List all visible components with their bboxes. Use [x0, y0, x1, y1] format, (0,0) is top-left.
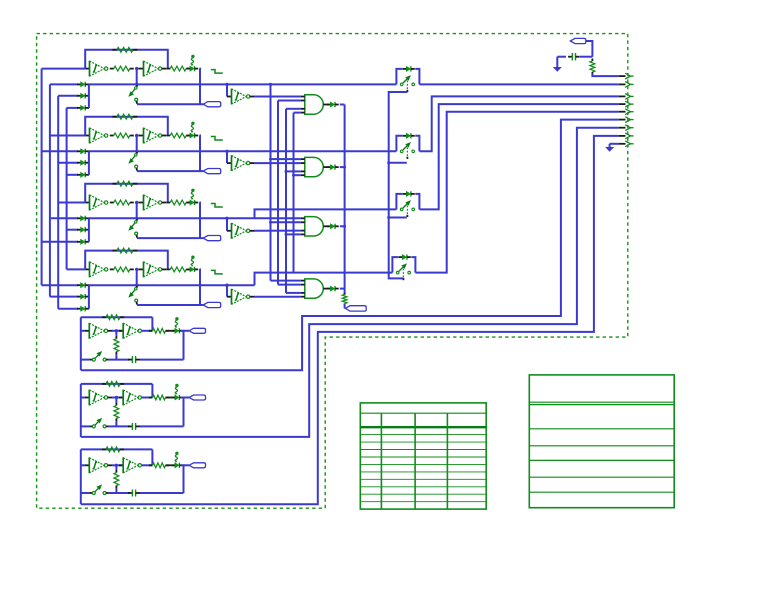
oscB damping resistor — [115, 402, 117, 405]
oscC output resistor — [149, 464, 153, 466]
osc4 bus branch to unit4 — [255, 273, 393, 286]
pin 7 — [625, 125, 630, 131]
oscA bottom wire right — [140, 359, 184, 361]
osc2 bus wire right — [89, 150, 397, 152]
osc4 lamp squiggle — [191, 256, 194, 259]
junction — [225, 150, 228, 153]
osc4 bus wire — [42, 284, 78, 286]
oscB mid wire — [112, 397, 123, 399]
bundle wire v1 — [270, 84, 272, 280]
oscA bottom wire mid — [109, 359, 130, 361]
gate G3 output diode — [327, 225, 330, 227]
osc4 output lamp/diode — [187, 268, 190, 270]
oscB damping bot wire — [115, 421, 117, 426]
osc2 feedback resistor — [112, 116, 117, 118]
gate1 input3 wire — [286, 108, 301, 110]
junction — [225, 217, 228, 220]
osc1 stub wire 2 — [58, 95, 78, 97]
gate G3 output wire — [340, 225, 345, 227]
gate G2 output diode — [327, 166, 330, 168]
oscA feedback resistor — [102, 316, 106, 318]
oscB feedback resistor — [102, 383, 106, 385]
oscB lamp squiggle — [175, 384, 178, 387]
gate4 input3 wire — [286, 292, 301, 294]
gate1 input4 wire — [294, 112, 301, 114]
osc3 output lamp/diode — [187, 202, 190, 204]
osc3 stub diode 2 — [77, 229, 81, 231]
osc1 stub diode 3 — [77, 107, 81, 109]
oscA out wire — [142, 330, 153, 332]
osc1 bus wire right — [89, 83, 397, 85]
buffer3 schmitt buffer — [231, 223, 233, 239]
osc2 stub wire 2 — [58, 162, 78, 164]
oscA schmitt inverter B — [122, 323, 124, 339]
oscC flag stub — [184, 464, 190, 466]
power flag wire — [586, 41, 593, 57]
osc3 bus wire — [50, 217, 78, 219]
osc1 inverter B input lead — [139, 68, 144, 70]
osc2 junction drop wire — [136, 136, 138, 152]
osc4 bottom wire — [137, 304, 203, 306]
power rail wire — [557, 56, 566, 58]
oscC output lamp/diode — [172, 464, 175, 466]
osc2 inverter B input lead — [139, 135, 144, 137]
osc2 feedback wire — [85, 117, 168, 136]
buffer2 input tap wire — [226, 151, 228, 163]
osc4 output lead — [162, 268, 166, 270]
oscB fb right wire — [151, 384, 153, 398]
left bus wire x=66.6 — [66, 108, 68, 270]
unit3 actuator wire — [389, 217, 407, 219]
power arrow stem — [556, 57, 558, 67]
pin9 arrow stem — [609, 144, 611, 147]
pin 9 — [625, 141, 630, 147]
oscC out lead — [166, 464, 175, 466]
oscB output flag — [189, 395, 206, 400]
gate G1 output wire — [340, 104, 345, 106]
pin 4 — [625, 101, 630, 107]
oscB bottom wire right — [140, 425, 184, 427]
oscC output flag — [189, 463, 206, 468]
osc1 stub diode 2 — [77, 95, 81, 97]
osc1 schmitt inverter B — [143, 61, 145, 77]
unit1 switch contacts — [400, 83, 403, 86]
power to pin1 wire — [592, 74, 618, 77]
unit2 switch diode — [403, 135, 407, 137]
osc3 waveform annotation — [211, 204, 223, 208]
pin7 return wire — [81, 128, 619, 437]
osc4 junction drop wire — [136, 269, 138, 285]
power supply arrow — [553, 67, 562, 72]
AND gate G2 — [305, 157, 324, 176]
osc2 right drop wire — [198, 136, 201, 172]
osc1 output lead — [162, 68, 166, 70]
unit2 switch bridge wire — [396, 136, 402, 152]
schematic boundary (dashed) — [37, 34, 628, 509]
AND gate G4 — [305, 279, 323, 298]
power capacitor — [568, 56, 572, 58]
oscB bottom wire mid — [109, 425, 130, 427]
oscB input wire — [81, 397, 85, 399]
osc2 output lamp/diode — [187, 135, 190, 137]
oscC input wire — [81, 464, 85, 466]
osc3 inverter B input lead — [139, 202, 144, 204]
osc4 inverter B input lead — [139, 268, 144, 270]
oscB out right wire — [181, 398, 184, 427]
junction — [343, 225, 346, 228]
oscB capacitor — [128, 425, 132, 427]
osc1 contact switch — [136, 85, 139, 87]
pin6 return wire — [81, 120, 619, 371]
oscA input wire — [81, 330, 85, 332]
junction — [269, 83, 272, 86]
osc2 inverter A input lead — [85, 135, 89, 137]
osc4 stub diode 2 — [77, 296, 81, 298]
gate G4 output diode — [327, 288, 330, 290]
oscB schmitt inverter B — [122, 390, 124, 406]
junction — [135, 217, 138, 220]
osc3 output lead — [162, 202, 166, 204]
oscA output lamp/diode — [172, 330, 175, 332]
osc2 diode tie wire — [88, 151, 90, 175]
oscC damping bot wire — [115, 489, 117, 493]
osc2 stub diode 2 — [77, 162, 81, 164]
AND gate G1 — [305, 95, 323, 114]
osc3 inverter A input lead — [85, 202, 89, 204]
buffer2 output lead — [250, 162, 254, 164]
osc1 schmitt inverter A — [89, 61, 91, 77]
osc3 right drop wire — [198, 203, 201, 239]
pin 4 lead — [619, 103, 626, 105]
pin 2 — [625, 82, 630, 88]
osc1 output flag — [203, 102, 221, 107]
oscA damping bot wire — [115, 355, 117, 360]
oscA capacitor — [128, 359, 132, 361]
oscC feedback resistor — [102, 448, 106, 450]
AND gate G3 — [305, 217, 324, 236]
junction — [135, 284, 138, 287]
buffer4 input tap wire — [226, 285, 228, 297]
left bus wire x=58.2 — [57, 96, 59, 309]
osc3 output flag — [203, 236, 221, 241]
osc4 bus diode — [77, 284, 81, 286]
osc3 junction drop wire — [136, 203, 138, 219]
buffer1 output lead — [250, 96, 254, 98]
oscB mid lead — [108, 397, 112, 399]
oscB top wire — [81, 383, 153, 385]
osc2 schmitt inverter A — [89, 128, 91, 144]
buffer2 input lead — [227, 162, 232, 164]
gate G2 output wire — [340, 166, 345, 168]
left bus wire x=49.9 — [49, 84, 51, 296]
osc4 output flag — [203, 302, 221, 307]
junction — [115, 464, 118, 467]
osc3 bus diode — [77, 217, 81, 219]
osc4 bus wire right — [89, 284, 255, 286]
unit1 switch bridge wire — [396, 69, 402, 85]
osc4 feedback wire — [85, 251, 168, 270]
pin 3 lead — [619, 95, 626, 97]
junction — [269, 221, 272, 224]
buffer2 schmitt buffer — [231, 155, 233, 171]
oscA out lead — [166, 330, 175, 332]
oscC mid lead — [108, 464, 112, 466]
unit2 to pin wire — [419, 96, 618, 151]
actuator chain wire — [389, 92, 408, 278]
unit3 switch contacts — [400, 208, 403, 211]
osc1 input wire — [42, 68, 86, 70]
gate2 input4 wire — [294, 174, 301, 176]
oscB left wire — [80, 384, 82, 437]
junction — [135, 67, 138, 70]
unit3 switch diode — [403, 193, 407, 195]
osc1 output resistor — [166, 68, 170, 70]
pin 1 — [625, 73, 630, 79]
unit4 switch diode — [399, 256, 403, 258]
oscA output flag — [189, 328, 206, 333]
bundle wire v2 — [277, 101, 279, 285]
osc1 feedback wire — [85, 50, 168, 69]
oscB schmitt inverter A — [88, 390, 90, 406]
oscB output resistor — [149, 397, 153, 399]
power arrow (pin9) — [605, 147, 614, 152]
buffer1 schmitt buffer — [231, 89, 233, 105]
osc1 junction drop wire — [136, 69, 138, 85]
oscC bottom wire mid — [109, 492, 130, 494]
power rail wire right — [580, 56, 592, 58]
oscC lamp squiggle — [175, 452, 178, 455]
junction — [387, 161, 390, 164]
osc3 input wire — [58, 202, 85, 204]
oscB bottom wire left — [81, 425, 89, 427]
osc2 schmitt inverter B — [143, 128, 145, 144]
power flag — [570, 38, 586, 43]
osc3 stub wire 2 — [67, 229, 78, 231]
osc1 lamp squiggle — [191, 55, 194, 58]
oscA mid wire — [112, 330, 123, 332]
osc4 schmitt inverter B — [143, 262, 145, 278]
unit1 switch diode — [403, 68, 407, 70]
unit2 actuator wire — [389, 162, 407, 164]
oscA inverter B input lead — [119, 330, 123, 332]
osc1 inverter A input lead — [85, 68, 89, 70]
osc1 bus diode — [77, 83, 81, 85]
pin 5 lead — [619, 111, 626, 113]
oscA damping top wire — [115, 331, 117, 336]
osc3 schmitt inverter A — [89, 195, 91, 211]
oscC schmitt inverter B — [122, 457, 124, 473]
osc4 schmitt inverter A — [89, 262, 91, 278]
osc4 contact switch — [136, 286, 139, 288]
osc2 bus wire — [42, 150, 78, 152]
oscC inverter B input lead — [119, 464, 123, 466]
oscA inverter A input lead — [85, 330, 89, 332]
osc3 schmitt inverter B — [143, 195, 145, 211]
oscB damping top wire — [115, 398, 117, 403]
osc1 bottom wire — [137, 103, 203, 105]
osc3 bus wire right — [89, 217, 301, 219]
OR bus tail wire — [344, 304, 346, 309]
oscA mid lead — [108, 330, 112, 332]
osc1 diode tie wire — [88, 84, 90, 108]
osc2 stub diode 3 — [77, 174, 81, 176]
oscA contact switch — [89, 359, 92, 361]
osc4 stub wire 2 — [50, 296, 78, 298]
oscA schmitt inverter A — [88, 323, 90, 339]
oscB inverter B input lead — [119, 397, 123, 399]
junction — [135, 150, 138, 153]
osc3 diode tie wire — [88, 218, 90, 242]
junction — [292, 174, 295, 177]
oscA output resistor — [149, 330, 153, 332]
oscC fb right wire — [151, 449, 153, 465]
osc2 output lead — [162, 135, 166, 137]
osc4 input wire — [67, 268, 86, 270]
left bus wire x=41.6 — [41, 69, 43, 286]
osc3 feedback wire — [85, 184, 168, 203]
osc1 feedback resistor — [112, 49, 117, 51]
oscA damping resistor — [115, 336, 117, 339]
oscC capacitor — [128, 492, 132, 494]
osc2 bottom wire — [137, 170, 203, 172]
mixer output flag — [345, 306, 366, 311]
osc4 inverter A input lead — [85, 268, 89, 270]
buffer1 output wire — [254, 96, 301, 98]
osc4 right drop wire — [198, 269, 201, 305]
pin8 return wire — [81, 136, 619, 504]
pin 6 — [625, 117, 630, 123]
oscA fb right wire — [151, 317, 153, 331]
osc2 input wire — [50, 135, 85, 137]
osc1 bus wire — [50, 83, 78, 85]
osc1 output lamp/diode — [187, 68, 190, 70]
oscC out right wire — [181, 465, 184, 493]
oscB out lead — [166, 397, 175, 399]
oscC schmitt inverter A — [88, 457, 90, 473]
buffer3 output lead — [250, 230, 254, 232]
junction — [135, 201, 138, 204]
junction — [387, 216, 390, 219]
osc4 feedback resistor — [112, 250, 117, 252]
oscB flag stub — [184, 397, 190, 399]
OR bus resistor — [344, 293, 346, 295]
pin 2 lead — [619, 83, 626, 85]
oscC top wire — [81, 448, 153, 450]
osc3 lamp squiggle — [191, 189, 194, 192]
oscA flag stub — [184, 330, 190, 332]
OR bus wire — [344, 105, 346, 295]
pin 7 lead — [619, 127, 626, 129]
osc2 waveform annotation — [211, 137, 223, 141]
osc2 lamp squiggle — [191, 122, 194, 125]
buffer1 input tap wire — [226, 84, 228, 96]
buffer4 schmitt buffer — [231, 289, 233, 305]
osc3 contact switch — [136, 219, 139, 221]
oscC inverter A input lead — [85, 464, 89, 466]
oscC bottom wire left — [81, 492, 89, 494]
osc2 output resistor — [166, 135, 170, 137]
osc1 right drop wire — [198, 69, 201, 105]
osc2 output flag — [203, 169, 221, 174]
gate3 input2 wire — [271, 221, 301, 223]
unit1 to pin wire — [419, 83, 618, 85]
gate2 input3 wire — [286, 170, 301, 172]
buffer2 output wire — [254, 162, 301, 164]
junction — [225, 284, 228, 287]
gate3 input4 wire — [286, 233, 301, 235]
osc4 stub wire 3 — [58, 308, 78, 310]
unit4 to pin wire — [415, 112, 618, 273]
gate G4 output wire — [340, 288, 345, 290]
oscA out right wire — [181, 331, 184, 360]
buffer3 input lead — [227, 230, 232, 232]
pin 5 — [625, 109, 630, 115]
gate2 input1 wire — [271, 158, 301, 160]
bundle wire v3 — [285, 109, 287, 293]
oscA left wire — [80, 317, 82, 370]
oscA bottom wire left — [81, 359, 89, 361]
osc4 coupling resistor — [110, 268, 114, 270]
title table — [529, 375, 674, 508]
oscC damping resistor — [115, 470, 117, 473]
oscB inverter A input lead — [85, 397, 89, 399]
osc2 bus diode — [77, 150, 81, 152]
junction — [115, 329, 118, 332]
oscA lamp squiggle — [175, 317, 178, 320]
oscC left wire — [80, 449, 82, 504]
unit4 switch bridge wire — [392, 257, 398, 273]
osc3 coupling resistor — [110, 202, 114, 204]
osc4 waveform annotation — [211, 270, 223, 274]
pin 8 lead — [619, 135, 626, 137]
buffer3 output wire — [254, 230, 301, 232]
oscC damping top wire — [115, 465, 117, 469]
buffer4 input lead — [227, 296, 232, 298]
osc3 bottom wire — [137, 237, 203, 239]
oscC contact switch — [89, 492, 92, 494]
buffer4 output lead — [250, 296, 254, 298]
osc4 diode tie wire — [88, 285, 90, 309]
osc4 output resistor — [166, 268, 170, 270]
junction — [225, 83, 228, 86]
oscC bottom wire right — [140, 492, 184, 494]
bundle wire v4 — [293, 113, 295, 273]
junction — [135, 83, 138, 86]
power resistor — [591, 59, 593, 62]
osc3 output resistor — [166, 202, 170, 204]
oscB output lamp/diode — [172, 397, 175, 399]
buffer3 input tap wire — [226, 218, 228, 231]
osc1 coupling resistor — [110, 68, 114, 70]
osc1 stub wire 3 — [67, 107, 78, 109]
pin 3 — [625, 94, 630, 100]
oscB out wire — [142, 397, 153, 399]
pin 8 — [625, 133, 630, 139]
unit2 switch contacts — [400, 150, 403, 153]
osc3 bus branch to unit3 — [255, 209, 397, 218]
osc3 feedback resistor — [112, 183, 117, 185]
oscC mid wire — [112, 464, 123, 466]
gate1 input2 wire — [278, 100, 301, 102]
osc2 stub wire 3 — [67, 174, 78, 176]
junction — [135, 134, 138, 137]
oscB contact switch — [89, 425, 92, 427]
junction — [285, 170, 288, 173]
gate4 input2 wire — [278, 284, 301, 286]
buffer4 output wire — [254, 296, 301, 298]
gate G1 output diode — [327, 104, 330, 106]
pin 1 lead — [619, 75, 626, 77]
